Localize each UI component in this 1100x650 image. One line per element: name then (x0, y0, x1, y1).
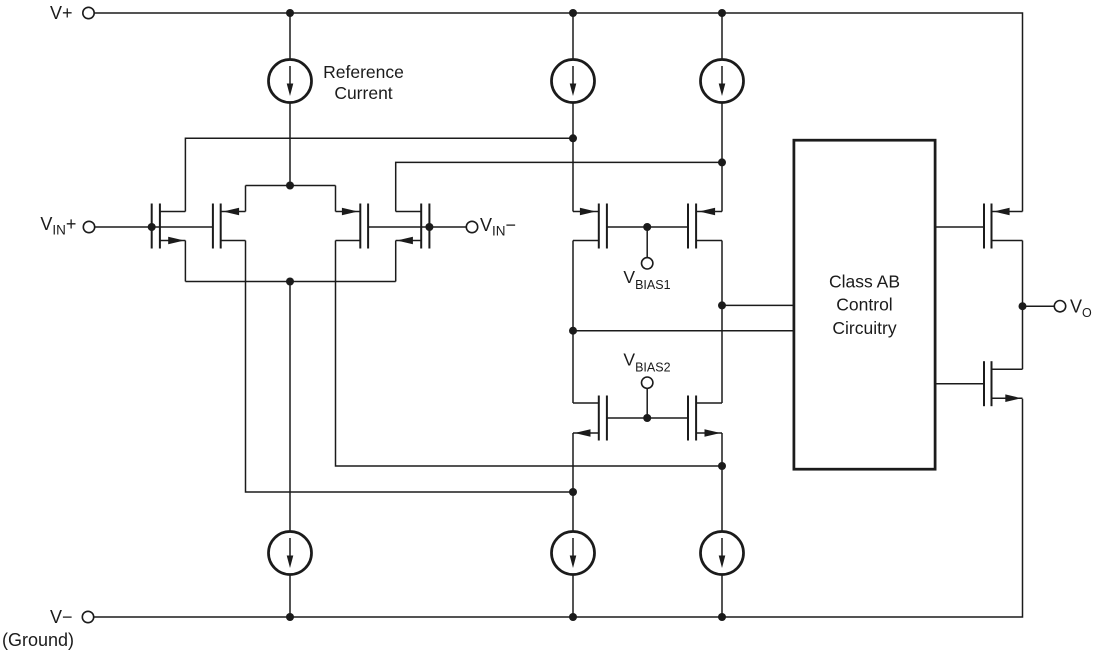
junction I1/PMOS sources (286, 182, 294, 190)
pmos M2 (input, VIN+) (213, 204, 246, 249)
wire I1 to PMOS pair sources (289, 103, 291, 186)
junction V+/I2 (569, 9, 577, 17)
nmos M1 (input, VIN+) (152, 204, 186, 249)
junction node F (to Class AB) (718, 301, 726, 309)
junction VBIAS1 node (643, 223, 651, 231)
svg-text:(Ground): (Ground) (2, 630, 74, 650)
svg-text:Class AB: Class AB (829, 272, 900, 292)
terminal VBIAS2 (642, 377, 653, 388)
terminal VO (1054, 301, 1065, 312)
junction V-/I5 (569, 613, 577, 621)
wire PMOS pair source rail (246, 185, 336, 187)
junction node A (I2 / M1 drain) (569, 134, 577, 142)
wire M4 source to tail (395, 241, 397, 282)
junction tail/I4 (286, 278, 294, 286)
svg-text:Current: Current (334, 83, 392, 103)
block U1 Class AB Control Circuitry (794, 140, 935, 469)
terminal V- (Ground) (82, 611, 93, 622)
wire M2 source up to source rail (245, 186, 247, 212)
pmos M9 (output) (984, 204, 1023, 249)
wire V+ to I3 (721, 13, 723, 60)
wire M4 drain to node B (396, 162, 722, 211)
wire M3 source up to source rail (335, 186, 337, 212)
wire M6 drain down (721, 241, 723, 404)
current source I4 (input tail) (269, 532, 312, 575)
wire Class AB to M10 gate (937, 383, 985, 385)
wire output node to VO terminal (1023, 305, 1055, 307)
wire M5 drain down (572, 241, 574, 404)
nmos M8 (cascode) (688, 396, 722, 441)
current source I3 (701, 60, 744, 103)
junction V-/I4 (286, 613, 294, 621)
wire node F to Class AB box (722, 304, 794, 306)
current source I2 (552, 60, 595, 103)
junction output node (1019, 302, 1027, 310)
current source I1 (reference current) (269, 60, 312, 103)
wire V- rail (94, 399, 1023, 617)
wire M3 drain down to node C (336, 241, 723, 467)
wire VBIAS2 stub (646, 388, 648, 418)
wire V+ to I2 (572, 13, 574, 60)
wire M9 drain to output node (1022, 241, 1024, 307)
nmos M4 (input, VIN-) (396, 204, 430, 249)
svg-text:Control: Control (836, 295, 892, 315)
pmos M5 (cascode) (573, 204, 607, 249)
wire M2 drain down to node D (246, 241, 574, 493)
current source I5 (552, 532, 595, 575)
wire VIN+ to gates of M1,M2 (95, 226, 213, 228)
junction VBIAS2 node (643, 414, 651, 422)
wire VBIAS1 stub (646, 227, 648, 258)
wire M7 source down to I5 (572, 433, 574, 532)
wire VBIAS2 gate line (607, 417, 688, 419)
wire V+ rail (95, 13, 1023, 212)
wire VIN- to gates of M3,M4 (368, 226, 466, 228)
junction node B (I3 / M4 drain) (718, 158, 726, 166)
terminal VIN- (466, 221, 477, 232)
pmos M3 (input, VIN-) (336, 204, 369, 249)
junction node D (M2 drain / M7 source) (569, 488, 577, 496)
wire M1 drain to node A (185, 138, 573, 211)
wire Class AB to M9 gate (937, 226, 985, 228)
svg-text:V−: V− (50, 607, 73, 627)
wire node E to Class AB box (573, 330, 794, 332)
junction V+/I1 (286, 9, 294, 17)
terminal VIN+ (83, 221, 94, 232)
svg-text:V+: V+ (50, 3, 73, 23)
terminal VBIAS1 (642, 258, 653, 269)
nmos M7 (cascode) (573, 396, 607, 441)
junction node E (to Class AB) (569, 327, 577, 335)
wire M1 source to tail (184, 241, 186, 282)
svg-text:Circuitry: Circuitry (832, 318, 896, 338)
junction VIN-/M4 gate (425, 223, 433, 231)
wire V+ to I1 (289, 13, 291, 60)
wire tail down to I4 (289, 282, 291, 532)
terminal V+ (83, 7, 94, 18)
junction VIN+/M1 gate (148, 223, 156, 231)
wire I2 down to cascode M5 (572, 103, 574, 212)
wire VBIAS1 gate line (607, 226, 688, 228)
junction V-/I6 (718, 613, 726, 621)
pmos M6 (cascode) (688, 204, 722, 249)
wire M8 source down to I6 (721, 433, 723, 532)
junction node C (M3 drain / M8 source) (718, 462, 726, 470)
wire I6 to V- rail (721, 575, 723, 618)
nmos M10 (output) (984, 361, 1023, 406)
wire NMOS pair tail rail (185, 281, 395, 283)
wire M10 drain to output node (1022, 306, 1024, 369)
current source I6 (701, 532, 744, 575)
wire I3 down to cascode M6 (721, 103, 723, 212)
svg-text:Reference: Reference (323, 62, 404, 82)
wire I5 to V- rail (572, 575, 574, 618)
wire I4 to V- rail (289, 575, 291, 618)
junction V+/I3 (718, 9, 726, 17)
